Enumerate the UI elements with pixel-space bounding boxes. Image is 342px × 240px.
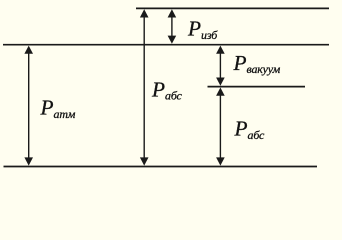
- atmospheric pressure line: [3, 44, 329, 46]
- zero (absolute vacuum) bottom line: [4, 166, 318, 168]
- arrow P izb: [168, 9, 177, 44]
- vacuum level line: [208, 86, 306, 88]
- arrow P abs right: [216, 88, 225, 166]
- arrow P abs left: [140, 9, 149, 165]
- arrow P atm: [24, 46, 33, 166]
- arrow P vacuum: [216, 46, 225, 86]
- top line (P abs upper datum): [136, 7, 329, 9]
